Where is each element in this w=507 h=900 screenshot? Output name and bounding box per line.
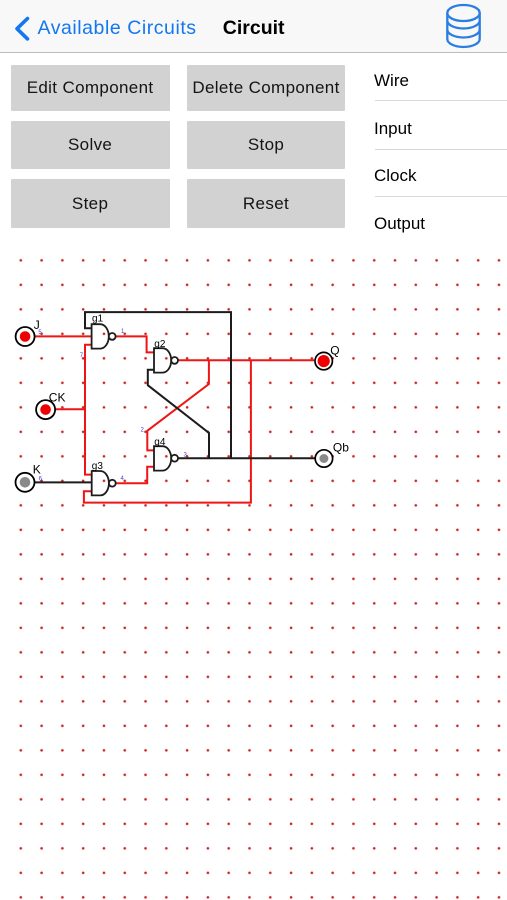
output Qb bulb [315, 441, 349, 468]
input K bulb [16, 462, 41, 492]
nand gate g3 [92, 461, 116, 495]
wire Qb feedback to g1 top input (black) [85, 312, 231, 458]
button Edit Component [11, 65, 170, 111]
nand gate g2 [154, 339, 178, 373]
wire Q loop to g3 bottom input (red) [84, 360, 251, 502]
dot grid background [6, 248, 507, 900]
svg-text:Q: Q [330, 343, 339, 357]
wire CK trunk g1 bottom input to g3 top input (red) [85, 345, 92, 475]
svg-text:g3: g3 [92, 461, 104, 472]
navigation bar [0, 0, 507, 53]
nand gate g4 [154, 437, 178, 471]
button Delete Component [187, 65, 345, 111]
wire Qb line g4 output to Qb bulb (black) [178, 457, 314, 459]
wire J to g1 (red) [35, 335, 92, 337]
wire g3 output to g4 bottom input (red) [116, 467, 155, 483]
button Step [11, 179, 170, 228]
wire Q branch diagonal to g4 top input (red) [147, 360, 209, 450]
wire K to g3 (black) [35, 481, 92, 483]
svg-text:K: K [33, 462, 41, 476]
button Stop [187, 121, 345, 169]
wire g2 bottom input cross to g4 output (black) [148, 370, 209, 458]
button Solve [11, 121, 170, 169]
svg-text:Qb: Qb [333, 441, 349, 455]
svg-text:g1: g1 [92, 314, 104, 325]
wire Q line g2 output to Q bulb (red) [178, 359, 314, 361]
button Reset [187, 179, 345, 228]
wire CK stub (red) [55, 408, 85, 410]
palette list [374, 72, 409, 89]
back chevron [13, 15, 33, 45]
input J bulb [16, 318, 40, 346]
input CK bulb [36, 390, 65, 419]
wire g1 output to g2 top input (red) [115, 336, 154, 352]
svg-text:CK: CK [49, 390, 66, 404]
svg-text:g4: g4 [154, 437, 166, 448]
database icon [445, 3, 482, 51]
nand gate g1 [92, 314, 116, 349]
svg-text:g2: g2 [154, 339, 166, 350]
output Q bulb [315, 343, 340, 370]
